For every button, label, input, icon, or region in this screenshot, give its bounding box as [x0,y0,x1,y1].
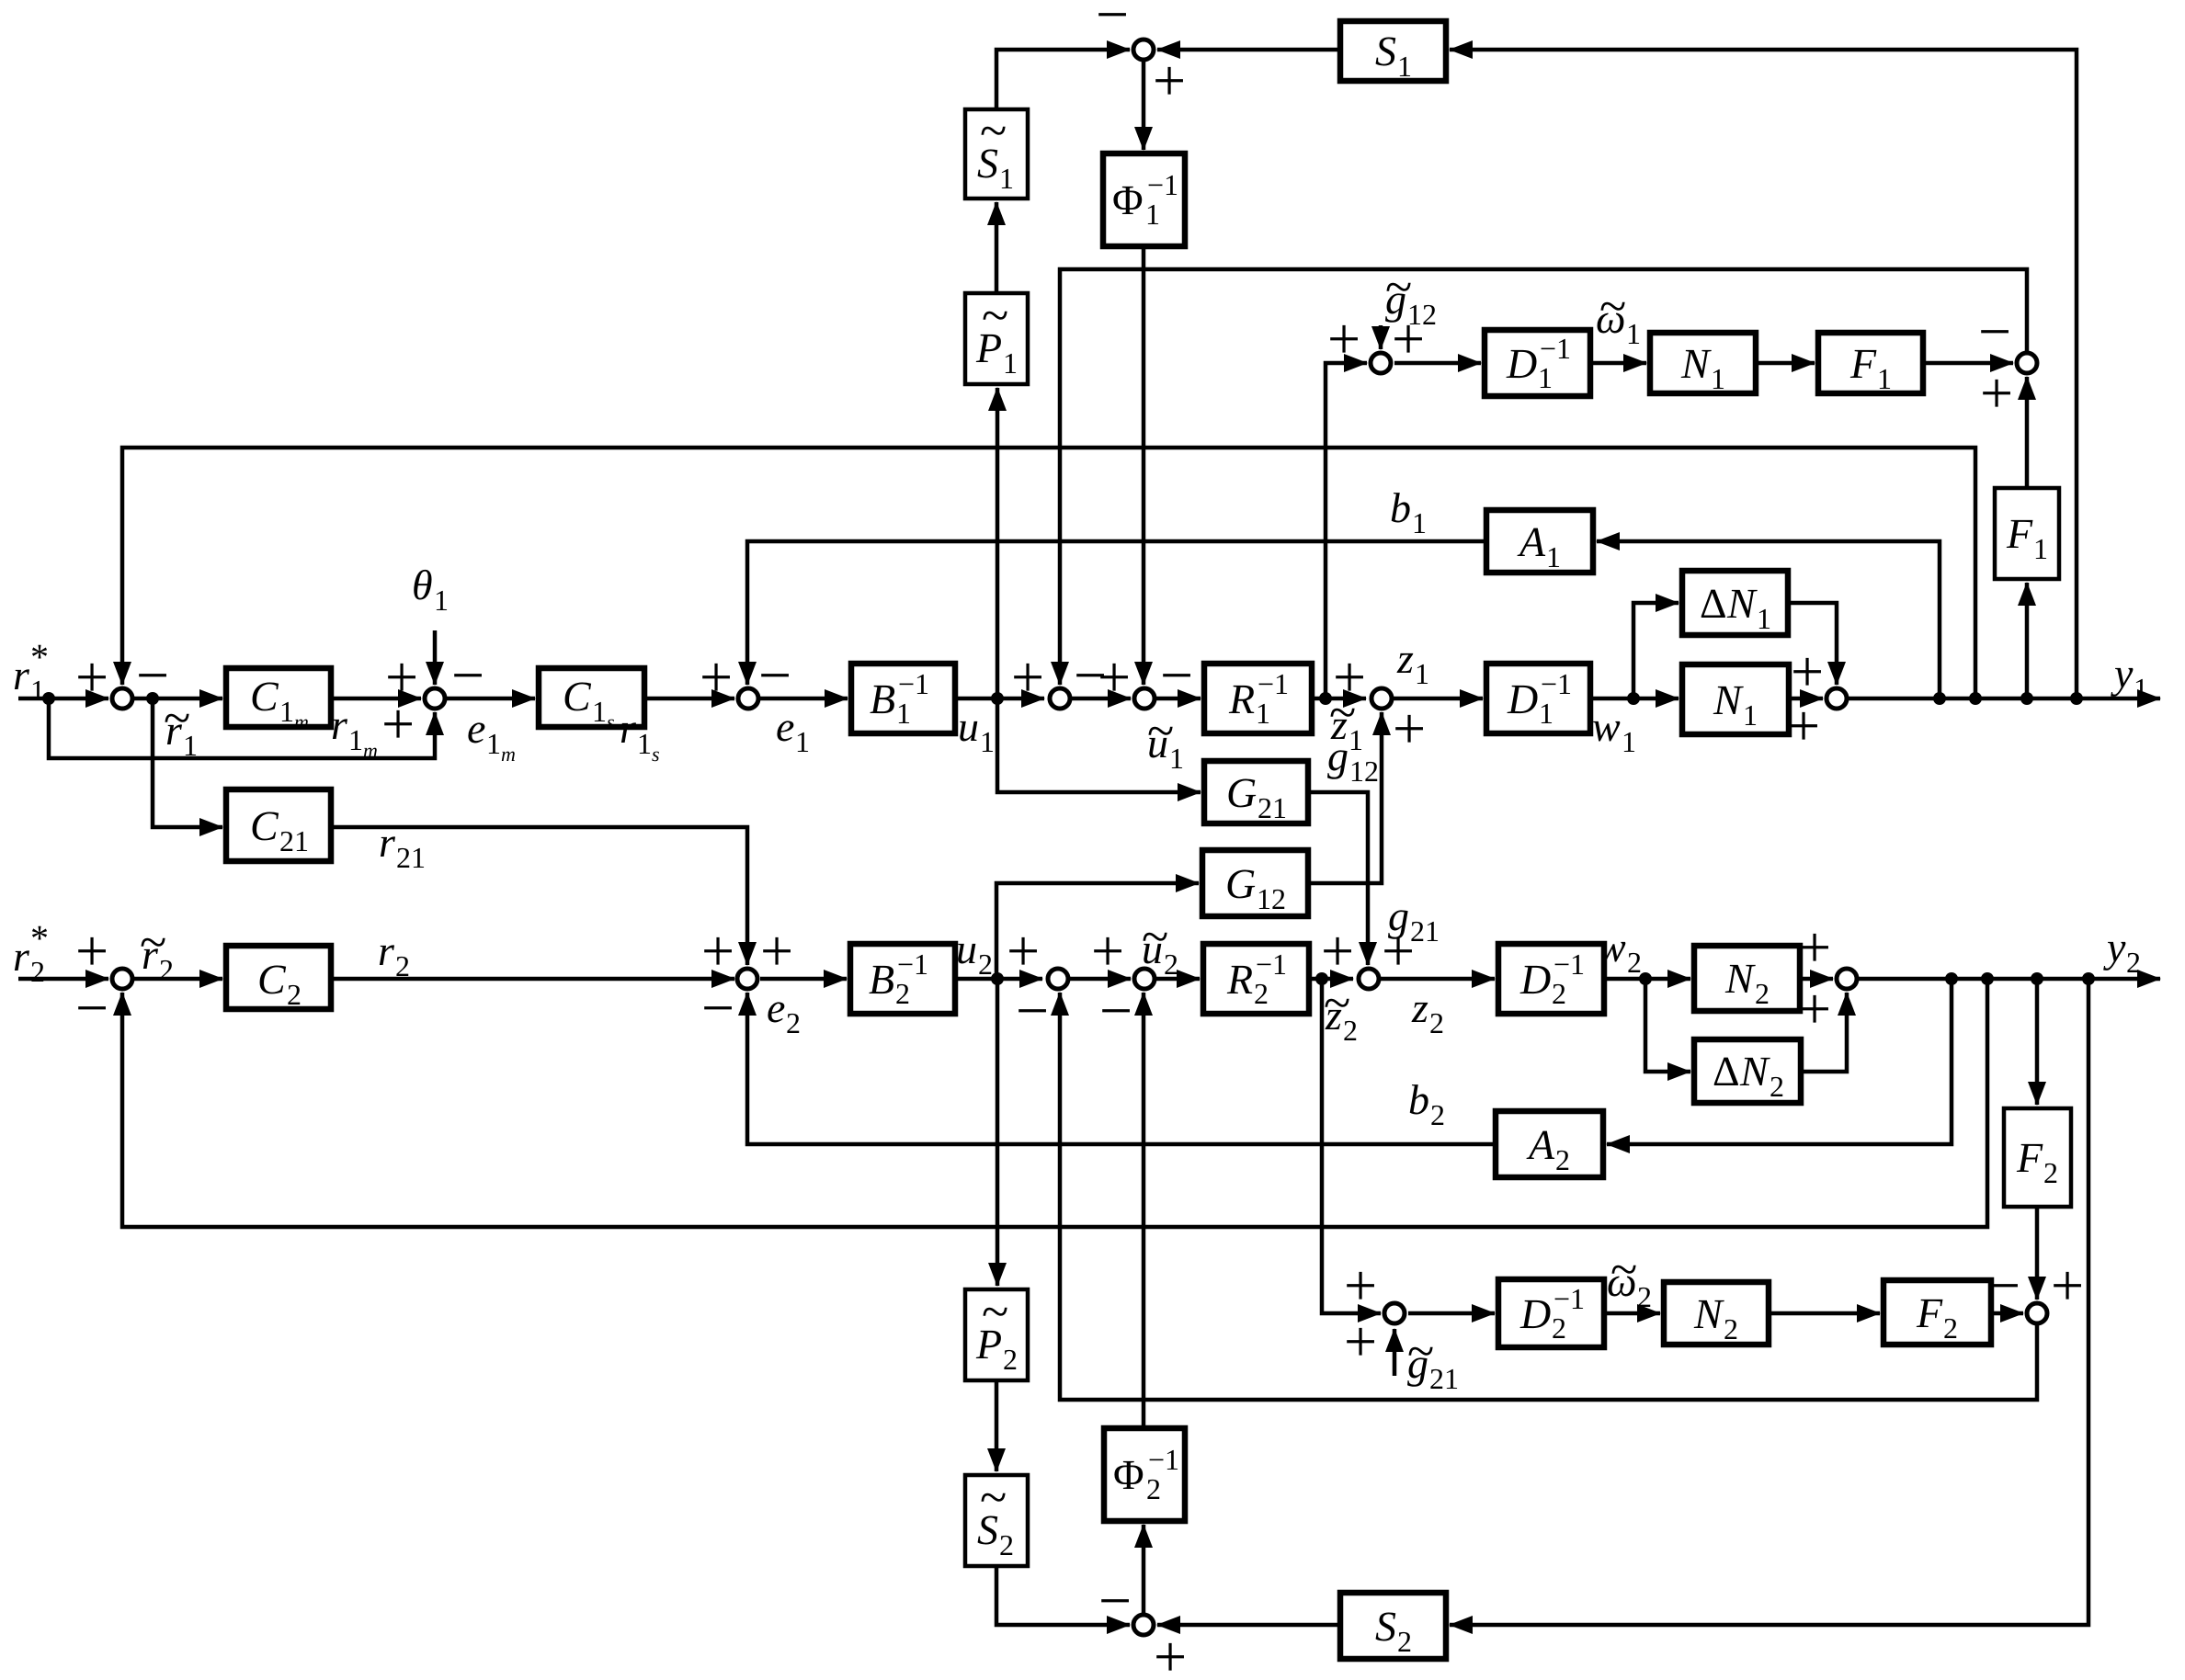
label DeltaN2 [1713,1048,1784,1103]
node w2 tap [1639,972,1652,985]
svg-text:1: 1 [30,674,45,707]
svg-text:e: e [776,703,794,750]
summing junction y2 [1837,969,1857,989]
svg-text:1: 1 [999,162,1014,195]
svg-text:2: 2 [1397,1625,1412,1658]
svg-text:*: * [30,917,49,959]
label r2* [13,917,49,988]
node y1 tap r~1 fb [1969,692,1982,705]
block D2^-1 omega [1498,1279,1604,1347]
label e2 [767,984,801,1039]
summing junction S1 comparator [1133,40,1154,60]
svg-text:−1: −1 [1541,667,1572,700]
node r~1 tap [146,692,159,705]
svg-text:r: r [13,652,30,698]
svg-text:−: − [1978,299,2011,364]
svg-text:F: F [2016,1134,2043,1181]
wire D1 to N1 [1590,697,1679,701]
wire u1 to P~1 [996,388,1000,698]
wire u~1 a to b [1072,697,1131,701]
svg-text:2: 2 [786,1006,801,1039]
svg-text:+: + [1154,1624,1187,1680]
wire u2 to G12 [996,883,1199,979]
block P~1 [965,293,1028,384]
svg-text:−: − [75,975,108,1040]
svg-text:C: C [563,673,592,720]
summing junction e1m [425,688,445,709]
svg-text:D: D [1506,340,1537,387]
label r~2 [140,914,174,986]
wire r1* input [18,697,108,701]
block C21 [226,789,331,861]
svg-text:−: − [136,642,169,708]
label w1 [1592,703,1636,758]
node y2 tap S2 [2082,972,2095,985]
summing junction omega1 comparator [2017,353,2037,373]
svg-text:+: + [760,918,793,983]
wire D2 omega to N2 omega [1604,1311,1660,1316]
svg-text:*: * [30,636,49,677]
svg-text:Δ: Δ [1713,1048,1740,1095]
svg-text:+: + [75,918,108,983]
label N1 main [1713,676,1758,732]
wire y1 to S1 [1450,50,2077,698]
svg-text:1: 1 [795,725,810,758]
block A2 [1496,1111,1603,1177]
svg-text:2: 2 [1627,946,1642,979]
label Phi1^-1 [1112,168,1178,231]
label D2^-1 main [1519,948,1585,1010]
svg-text:z: z [1411,984,1428,1031]
svg-text:1: 1 [1397,50,1412,83]
node u1 tap [991,692,1004,705]
svg-text:21: 21 [396,841,426,874]
label D1^-1 main [1507,667,1572,730]
svg-text:−1: −1 [1258,667,1289,700]
svg-text:+: + [1011,644,1044,709]
svg-text:~: ~ [980,103,1007,158]
label omega~1 [1596,278,1641,350]
svg-text:2: 2 [1637,1280,1652,1313]
wire P~2 to S~2 [995,1380,999,1471]
wire r~1 to C1m [134,697,222,701]
svg-text:+: + [700,644,733,709]
svg-text:1: 1 [348,723,363,756]
wire F2 vertical to comparator [2035,1207,2040,1300]
block Phi1^-1 [1103,153,1185,246]
label A2 [1526,1121,1570,1176]
svg-text:+: + [75,644,108,709]
svg-text:−: − [1160,642,1193,708]
wire z~1 tap to g~12 sum [1326,363,1367,698]
svg-text:1: 1 [1626,317,1641,350]
label P~2 [975,1284,1018,1376]
label S~1 [977,103,1014,195]
label Phi2^-1 [1113,1443,1179,1505]
block DeltaN2 [1694,1039,1801,1103]
wire C1s to e1 sum [644,697,734,701]
svg-text:2: 2 [1552,1311,1566,1345]
wire u~1 to R1 [1156,697,1201,701]
wire S~2 to comparator [996,1566,1130,1625]
svg-text:−: − [1096,0,1129,47]
block S~2 [965,1475,1028,1566]
svg-text:1: 1 [896,697,911,730]
svg-text:+: + [1007,918,1040,983]
wire g~12 sum to D1 omega [1394,361,1481,366]
svg-text:+: + [1382,918,1415,983]
svg-text:+: + [701,918,734,983]
svg-text:+: + [1327,306,1360,371]
svg-text:A: A [1526,1121,1555,1168]
wire u2 to P~2 [996,979,1000,1286]
svg-text:12: 12 [1349,755,1379,788]
label G21 [1226,769,1287,824]
svg-text:−1: −1 [1148,1443,1179,1476]
svg-text:1: 1 [1546,540,1561,573]
svg-text:+: + [1098,644,1131,709]
wire y1 to F1 vertical [2025,583,2030,698]
wire z~2 to sum [1309,977,1353,982]
label P~1 [975,288,1018,380]
label w2 [1598,924,1642,979]
block N1 main [1682,664,1789,734]
svg-text:1: 1 [2134,672,2148,705]
label N2 omega [1693,1290,1738,1345]
svg-text:B: B [870,675,895,722]
svg-text:+: + [381,691,415,756]
label C1s [563,673,615,733]
svg-text:r: r [13,933,30,980]
svg-text:N: N [1739,1048,1770,1095]
svg-text:N: N [1724,955,1756,1002]
svg-text:+: + [1333,644,1366,709]
summing junction S2 comparator [1133,1615,1154,1635]
wire G12 g12 to z1 sum [1308,712,1382,883]
block C1s [539,668,644,727]
wire omega2 error to u~2 a [1060,993,2037,1400]
svg-text:z: z [1396,635,1414,682]
svg-text:2: 2 [999,1528,1014,1561]
svg-text:2: 2 [1164,948,1178,981]
block Phi2^-1 [1104,1428,1185,1521]
svg-text:2: 2 [159,953,174,986]
svg-text:1: 1 [434,584,449,617]
block B2^-1 [850,944,955,1014]
svg-text:2: 2 [895,977,910,1010]
label S1 [1375,28,1412,83]
svg-text:1: 1 [279,695,294,728]
block S1 [1340,21,1446,81]
block G21 [1204,761,1308,823]
svg-text:2: 2 [1755,977,1770,1010]
svg-text:N: N [1680,340,1712,387]
label g21 [1388,892,1440,948]
wire w1 to DeltaN1 [1633,603,1679,698]
wire C1m to e1m sum [331,697,421,701]
block S2 [1340,1593,1446,1659]
wire DeltaN2 to y2 sum [1801,993,1847,1072]
svg-text:−1: −1 [1540,332,1571,365]
label F1 omega [1849,340,1892,395]
wire comparator to Phi2 [1142,1525,1146,1613]
svg-text:−1: −1 [1147,168,1178,201]
wire S~1 to comparator [996,50,1130,109]
summing junction z1 [1371,688,1392,709]
svg-text:N: N [1713,676,1744,723]
label A1 [1517,518,1561,573]
label u~1 [1147,703,1184,775]
svg-text:F: F [1916,1289,1943,1336]
label g12 [1327,732,1379,788]
svg-text:2: 2 [2043,1156,2058,1189]
svg-text:r: r [331,701,348,748]
block F2 vertical [2004,1108,2071,1207]
label u~2 [1142,909,1178,981]
node y2 tap F2 [2031,972,2043,985]
svg-text:e: e [467,705,485,752]
label C2 [257,956,302,1011]
svg-text:21: 21 [1258,791,1287,824]
wire F1 omega to comparator [1923,361,2013,366]
svg-text:1: 1 [1145,198,1160,231]
block N2 omega [1664,1282,1769,1345]
svg-text:+: + [1392,306,1425,371]
node w1 tap [1627,692,1640,705]
svg-text:2: 2 [1943,1311,1958,1345]
wire Phi1 to u~1 b [1142,246,1146,685]
svg-text:D: D [1507,675,1538,722]
label u2 [956,925,993,981]
svg-text:−1: −1 [897,948,928,981]
node y1 tap F1 [2020,692,2033,705]
wire g~21 input stub [1393,1329,1397,1376]
svg-text:+: + [1344,1309,1377,1374]
svg-text:2: 2 [287,978,302,1011]
svg-text:r: r [379,819,396,866]
label g~12 [1385,259,1437,331]
svg-text:Φ: Φ [1113,1451,1144,1498]
wire S2 to comparator [1157,1623,1340,1628]
svg-text:1: 1 [592,695,607,728]
svg-text:D: D [1519,956,1551,1003]
block C2 [226,946,331,1009]
svg-text:u: u [958,703,979,750]
svg-text:A: A [1517,518,1546,565]
svg-text:1: 1 [183,729,198,762]
svg-text:2: 2 [978,948,993,981]
svg-text:R: R [1228,675,1255,722]
svg-text:1: 1 [2033,532,2048,565]
summing junction u~2 a [1048,969,1068,989]
label theta1 [412,562,449,617]
node y2 tap A2 [1945,972,1958,985]
wire D1 omega to N1 omega [1590,361,1646,366]
label b2 [1408,1076,1445,1131]
svg-text:1: 1 [486,727,501,760]
block G12 [1202,850,1308,916]
block S~1 [965,109,1028,199]
svg-text:+: + [1798,976,1831,1041]
svg-text:u: u [956,925,977,972]
wire N1 omega to F1 omega [1756,361,1815,366]
wire DeltaN1 to y1 sum [1788,603,1837,685]
label D1^-1 omega [1506,332,1571,394]
wire u~2 to R2 [1156,977,1200,982]
wire u1 [955,697,1044,701]
label r~1 [164,690,198,762]
summing junction g~12 [1371,353,1391,373]
svg-text:−: − [1099,978,1132,1043]
svg-text:+: + [1787,693,1820,758]
svg-text:−: − [1987,1253,2020,1318]
summing junction g~21 [1384,1303,1405,1323]
svg-text:1: 1 [1757,602,1771,635]
label e1 [776,703,810,758]
wire e1m to C1s [447,697,535,701]
wire S1 to comparator [1157,48,1340,52]
svg-text:C: C [257,956,287,1003]
wire y2 output [1859,977,2160,982]
svg-text:12: 12 [1257,882,1286,915]
block C1m [226,668,331,727]
wire r21 to e2 sum [331,827,747,965]
label z~2 [1324,975,1358,1047]
wire b2 A2 to e2 sum [747,993,1496,1144]
wire F2 omega to comparator [1991,1311,2023,1316]
label N1 omega [1680,340,1725,395]
svg-text:m: m [294,710,309,733]
svg-text:+: + [1321,918,1354,983]
svg-text:−: − [1016,978,1049,1043]
svg-text:−: − [758,642,791,708]
label B1^-1 [870,667,929,730]
svg-text:1: 1 [1622,725,1636,758]
summing junction r~1 [112,688,132,709]
wire e2 to B2 [760,977,847,982]
svg-text:2: 2 [30,955,45,988]
svg-text:w: w [1598,924,1626,971]
wire omega1 error to u~1 a [1060,269,2027,685]
summing junction u~1 b [1134,688,1155,709]
wire G21 g21 to z~2 sum [1308,792,1368,965]
svg-text:+: + [2051,1253,2084,1318]
svg-text:1: 1 [1256,697,1270,730]
block R2^-1 [1203,944,1309,1014]
svg-text:B: B [869,956,894,1003]
summing junction e1 [738,688,758,709]
svg-text:C: C [250,673,279,720]
label S~2 [977,1470,1014,1561]
block DeltaN1 [1682,571,1788,635]
svg-text:N: N [1726,580,1758,627]
wire u1 to G21 [997,698,1201,792]
wire y2 r~2 feedback [122,979,1987,1227]
svg-text:2: 2 [1254,977,1269,1010]
svg-text:m: m [501,743,516,766]
svg-text:1: 1 [1538,361,1553,394]
svg-text:−1: −1 [1256,948,1287,981]
svg-text:−1: −1 [898,667,929,700]
svg-text:b: b [1408,1076,1429,1123]
label S2 [1375,1603,1412,1658]
svg-text:R: R [1226,956,1253,1003]
summing junction r~2 [112,969,132,989]
label r1m [331,701,378,762]
svg-text:1: 1 [1711,362,1725,395]
label D2^-1 omega [1519,1282,1585,1345]
svg-text:N: N [1693,1290,1724,1337]
svg-text:r: r [378,927,395,974]
block D1^-1 omega [1485,330,1590,396]
node z~1 tap [1319,692,1332,705]
block D2^-1 main [1498,944,1604,1014]
wire z1 to D1 [1394,697,1483,701]
summing junction y1 [1827,688,1847,709]
svg-text:+: + [1153,48,1186,113]
block N2 main [1694,946,1800,1011]
svg-text:S: S [1375,28,1396,74]
svg-text:2: 2 [1343,1014,1358,1047]
svg-text:b: b [1390,484,1411,531]
wire r~1 tap to C21 [153,698,222,827]
svg-text:2: 2 [1430,1098,1445,1131]
svg-text:1: 1 [1169,742,1184,775]
svg-text:~: ~ [1599,278,1626,334]
wire r2* input [18,977,108,982]
svg-text:Δ: Δ [1700,580,1727,627]
svg-text:F: F [2006,510,2033,557]
svg-text:1: 1 [637,727,652,760]
label b1 [1390,484,1427,539]
label y1 [2111,650,2148,705]
wire Phi2 to u~2 b [1142,993,1146,1428]
svg-text:D: D [1519,1290,1551,1337]
node y1 tap S1 [2070,692,2083,705]
svg-text:G: G [1225,860,1256,907]
node r1* tap [42,692,55,705]
wire w2 to DeltaN2 [1645,979,1690,1072]
svg-text:~: ~ [982,1284,1008,1339]
svg-text:C: C [250,802,279,849]
wire N1 to y1 sum [1789,697,1823,701]
node z~2 tap [1315,972,1328,985]
svg-text:21: 21 [279,824,309,857]
svg-text:−1: −1 [1553,1282,1585,1315]
wire P~1 to S~1 [995,202,999,293]
node y1 tap A1 [1933,692,1946,705]
label C1m [250,673,309,733]
svg-text:1: 1 [1003,346,1018,380]
svg-text:S: S [1375,1603,1396,1650]
label R2^-1 [1226,948,1287,1010]
svg-text:2: 2 [1429,1006,1444,1039]
svg-text:2: 2 [1724,1312,1738,1345]
svg-text:y: y [2111,650,2134,697]
label z~1 [1329,685,1363,756]
svg-text:g: g [1327,732,1349,779]
svg-text:2: 2 [1555,1143,1570,1176]
svg-text:2: 2 [1003,1343,1018,1376]
block F1 omega [1818,333,1923,393]
block F1 vertical [1995,488,2059,579]
wire r1* bypass to e1m [49,698,435,758]
node u2 tap [991,972,1004,985]
svg-text:−: − [451,642,484,708]
summing junction e2 [737,969,757,989]
summing junction u~2 b [1134,969,1155,989]
label R1^-1 [1228,667,1289,730]
